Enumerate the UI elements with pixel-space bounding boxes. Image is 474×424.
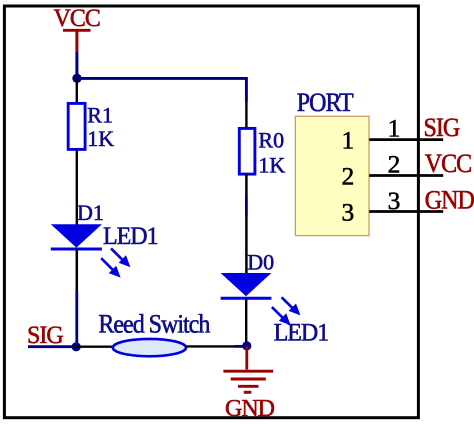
svg-text:SIG: SIG bbox=[424, 112, 460, 143]
svg-text:D1: D1 bbox=[77, 200, 104, 225]
svg-text:R0: R0 bbox=[258, 127, 284, 152]
svg-text:3: 3 bbox=[388, 186, 401, 215]
svg-text:1K: 1K bbox=[258, 153, 285, 178]
svg-text:D0: D0 bbox=[247, 249, 274, 274]
svg-text:GND: GND bbox=[225, 396, 275, 422]
svg-text:VCC: VCC bbox=[425, 148, 471, 179]
svg-text:2: 2 bbox=[341, 162, 354, 191]
svg-text:LED1: LED1 bbox=[103, 222, 158, 250]
svg-text:VCC: VCC bbox=[54, 4, 101, 32]
svg-text:GND: GND bbox=[425, 184, 474, 215]
svg-text:R1: R1 bbox=[87, 103, 113, 128]
svg-text:3: 3 bbox=[341, 198, 354, 227]
svg-text:PORT: PORT bbox=[297, 89, 354, 117]
svg-text:1: 1 bbox=[388, 114, 401, 143]
svg-text:SIG: SIG bbox=[27, 321, 63, 349]
svg-text:1: 1 bbox=[341, 126, 354, 155]
svg-text:2: 2 bbox=[388, 150, 401, 179]
svg-text:LED1: LED1 bbox=[274, 319, 329, 347]
svg-text:Reed Switch: Reed Switch bbox=[98, 308, 210, 339]
svg-text:1K: 1K bbox=[87, 126, 114, 151]
